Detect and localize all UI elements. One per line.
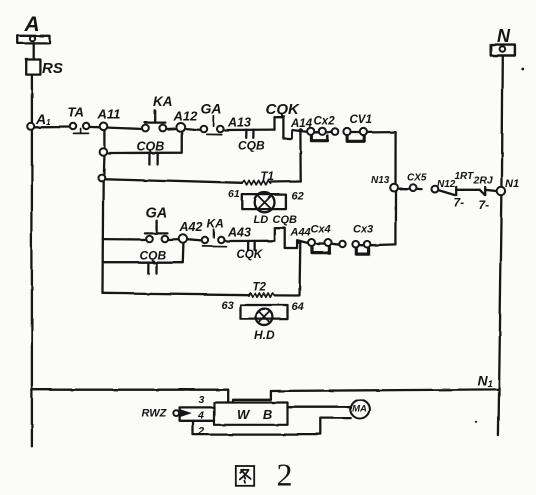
svg-text:N1: N1 (505, 178, 519, 190)
svg-text:Cx3: Cx3 (353, 224, 373, 236)
svg-text:A: A (24, 13, 40, 36)
svg-text:63: 63 (222, 300, 234, 312)
svg-text:RWZ: RWZ (142, 408, 168, 420)
svg-text:T1: T1 (261, 171, 274, 183)
svg-text:T2: T2 (253, 282, 267, 294)
svg-text:A44: A44 (290, 227, 311, 239)
svg-text:W B: W B (237, 407, 277, 422)
svg-text:A12: A12 (173, 109, 199, 124)
svg-text:CQB: CQB (273, 214, 298, 226)
svg-text:KA: KA (207, 217, 224, 231)
svg-text:2: 2 (197, 426, 204, 438)
svg-text:MA: MA (352, 404, 367, 415)
svg-text:H.D: H.D (254, 328, 275, 342)
svg-text:4: 4 (197, 410, 204, 422)
svg-text:61: 61 (228, 188, 240, 200)
svg-text:TA: TA (68, 105, 84, 120)
svg-text:7-: 7- (479, 198, 490, 212)
svg-text:A13: A13 (227, 116, 251, 130)
svg-text:CQK: CQK (266, 101, 301, 118)
svg-text:LD: LD (254, 214, 269, 226)
svg-text:CQB: CQB (137, 140, 165, 154)
svg-text:A11: A11 (97, 107, 121, 122)
svg-text:RS: RS (42, 60, 63, 77)
svg-text:3: 3 (199, 394, 205, 406)
svg-text:CX5: CX5 (407, 173, 427, 184)
svg-text:GA: GA (201, 101, 222, 117)
svg-text:CV1: CV1 (350, 114, 372, 126)
svg-text:Cx2: Cx2 (314, 116, 336, 128)
svg-text:A42: A42 (179, 220, 203, 234)
svg-text:CQB: CQB (140, 249, 167, 263)
svg-text:Cx4: Cx4 (311, 224, 331, 236)
svg-text:7-: 7- (454, 196, 465, 210)
svg-text:64: 64 (292, 301, 304, 313)
svg-text:GA: GA (146, 206, 168, 222)
svg-text:A14: A14 (290, 118, 313, 130)
svg-text:2: 2 (277, 457, 293, 493)
svg-text:1RT: 1RT (455, 171, 475, 182)
svg-text:N13: N13 (371, 175, 390, 186)
svg-text:KA: KA (153, 94, 173, 109)
svg-text:N: N (497, 26, 511, 46)
svg-text:N12: N12 (437, 179, 456, 190)
svg-text:62: 62 (292, 191, 304, 203)
svg-text:A43: A43 (227, 226, 251, 240)
svg-text:2RJ: 2RJ (473, 175, 494, 187)
svg-text:CQK: CQK (237, 249, 263, 261)
svg-text:CQB: CQB (238, 139, 265, 153)
